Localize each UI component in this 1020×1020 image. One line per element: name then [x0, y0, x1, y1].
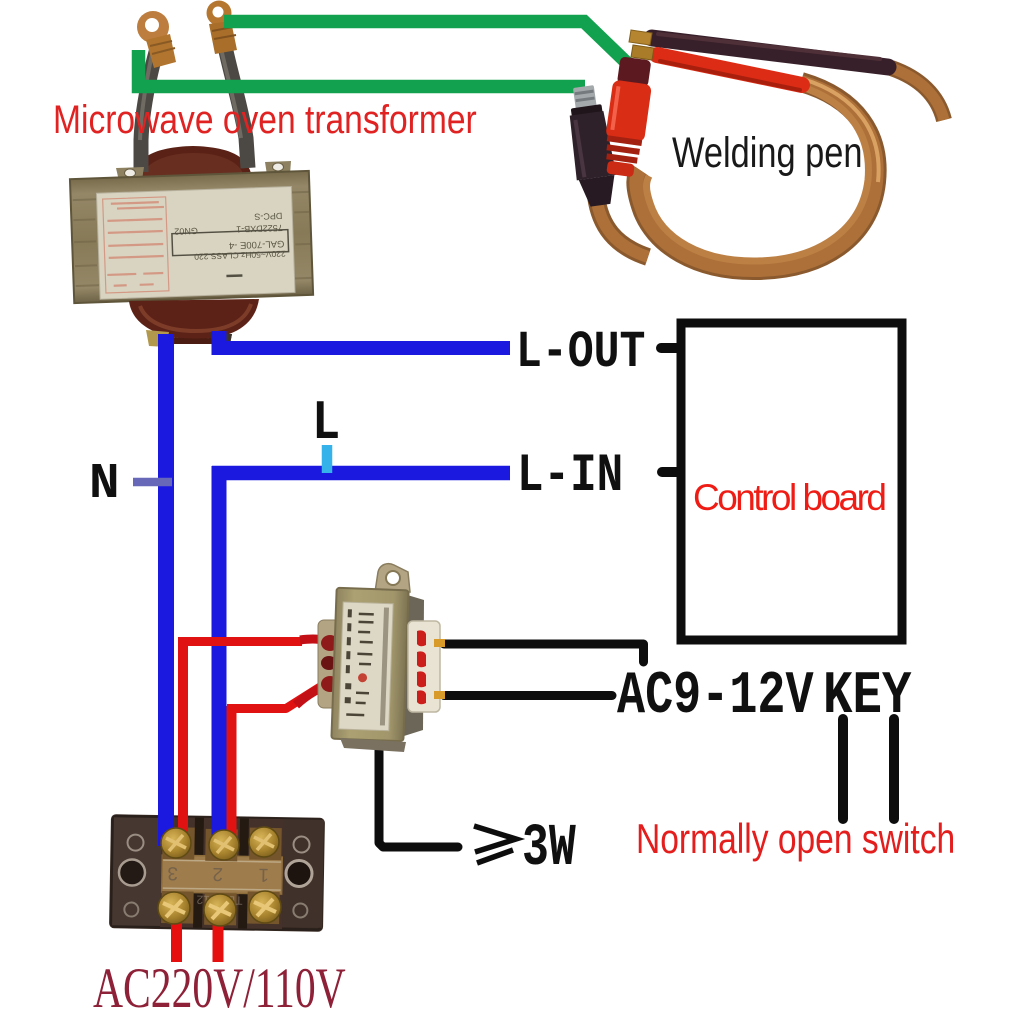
- lead dash L-IN to control board: [662, 467, 679, 477]
- control board U1: [681, 323, 902, 640]
- T1 mounting tab right: [265, 161, 291, 175]
- T1 primary coil (top winding bulge): [133, 146, 252, 178]
- transformer T1 (microwave oven transformer): [70, 1, 313, 350]
- T1 metal body: [70, 171, 313, 303]
- wire: red terminal-3 to T2 primary top: [178, 638, 188, 850]
- svg-text:Normally open switch: Normally open switch: [636, 817, 955, 863]
- svg-text:DPC-S: DPC-S: [254, 211, 282, 222]
- welding pen brass tip 2: [631, 45, 654, 60]
- wire: green secondary bottom (T1 to welding pen): [139, 50, 586, 87]
- T1 mounting tab left: [116, 167, 144, 181]
- svg-text:1: 1: [258, 864, 269, 885]
- wire: black T2 power rating lead: [379, 748, 458, 847]
- T2 output connector (cream): [408, 621, 440, 712]
- svg-text:AC9-12V: AC9-12V: [617, 663, 814, 731]
- T2 bottom edge: [340, 738, 406, 752]
- svg-text:L: L: [312, 391, 340, 455]
- T1 bottom tab right: [210, 333, 232, 349]
- welding pen cable from dark connector into loop: [596, 196, 648, 257]
- svg-text:L-IN: L-IN: [517, 445, 623, 506]
- welding pen dark electrode holder: [652, 38, 888, 67]
- lead dash L-OUT to control board: [661, 343, 678, 353]
- terminal block TB1 (screws): [158, 827, 281, 926]
- T2 red primary leads: [300, 639, 333, 644]
- ring terminal lug left: [137, 11, 169, 43]
- T1 secondary coil (bottom winding bulge): [129, 299, 259, 339]
- welding pen red electrode holder: [657, 55, 802, 85]
- T1 label: [96, 186, 295, 299]
- welding pen cable tail from dark electrode: [891, 68, 944, 120]
- T2 mounting ear: [375, 564, 410, 592]
- T1 label printed text (upside down): [171, 211, 289, 280]
- svg-text:GN02: GN02: [174, 226, 198, 237]
- svg-text:Microwave oven transformer: Microwave oven transformer: [53, 97, 477, 141]
- terminal block TB1 (body): [109, 814, 325, 932]
- svg-text:GAL-700E -4: GAL-700E -4: [229, 238, 285, 251]
- wire: red terminal-2 to T2 primary bottom: [227, 706, 237, 850]
- svg-text:N: N: [89, 456, 120, 512]
- TB1 right end section: [282, 819, 324, 928]
- T1 bottom tab left: [146, 330, 169, 347]
- welding pen cable loop (copper): [636, 82, 876, 270]
- wire: blue L-IN vertical to terminal block: [212, 466, 227, 848]
- wire: blue L-OUT horizontal: [212, 341, 511, 355]
- symbol greater-equal (power rating): [474, 826, 516, 852]
- switch KEY contact line 1: [838, 719, 848, 819]
- TB1 clamp plates bottom: [161, 891, 194, 924]
- T1 label red stamp block: [103, 197, 169, 293]
- svg-text:2: 2: [212, 863, 223, 884]
- cable connector plug (red): [600, 56, 655, 178]
- cable connector plug (dark): [564, 84, 620, 208]
- svg-text:Control board: Control board: [693, 477, 887, 518]
- wire: red mains lead 2 below terminal block: [213, 922, 224, 962]
- node L tick (cyan): [322, 445, 333, 473]
- wire: blue L-OUT stub from T1: [212, 331, 227, 354]
- wire: blue L-IN horizontal: [212, 466, 510, 481]
- svg-text:3: 3: [167, 862, 178, 883]
- welding pen brass tip 1: [629, 30, 652, 45]
- T2 label marks: [344, 606, 389, 725]
- wire: black T2 secondary top to control board: [444, 644, 644, 662]
- wire: green secondary top (T1 to welding pen): [224, 22, 628, 65]
- T1 lead cable left (gray): [141, 52, 156, 172]
- svg-text:3W: 3W: [522, 814, 576, 882]
- T2 body: [331, 588, 408, 741]
- svg-text:7522DXB-1: 7522DXB-1: [236, 223, 283, 235]
- T2 left bobbin flange: [318, 620, 340, 708]
- T1 lead cable right (gray): [224, 42, 248, 168]
- wire: blue N from T1 to terminal block: [158, 334, 174, 846]
- TB1 clamp plates top: [162, 827, 195, 860]
- wire: red mains lead 1 below terminal block: [171, 920, 182, 962]
- T2 pin tab bottom (orange): [434, 691, 445, 699]
- node N tick (periwinkle dash): [133, 478, 172, 487]
- svg-text:L-OUT: L-OUT: [516, 324, 645, 383]
- svg-text:AC220V/110V: AC220V/110V: [93, 957, 346, 1020]
- switch KEY contact line 2: [889, 719, 899, 819]
- ring terminal lug right: [207, 1, 232, 26]
- TB1 middle marking strip: [162, 855, 283, 894]
- svg-text:KEY: KEY: [823, 663, 912, 731]
- wire: black T2 secondary bottom (AC9-12V): [444, 691, 612, 700]
- T2 rear laminate: [404, 594, 424, 736]
- T2 pin tab top (orange): [434, 639, 445, 647]
- TB1 left end section: [112, 817, 162, 926]
- svg-text:Welding pen: Welding pen: [672, 129, 863, 176]
- transformer T2 (AC 9-12V power transformer): [296, 564, 445, 752]
- TB1 center body: [160, 817, 284, 929]
